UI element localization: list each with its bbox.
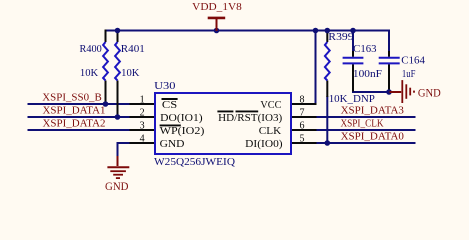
svg-text:W25Q256JWEIQ: W25Q256JWEIQ [154, 156, 235, 168]
svg-text:DI(IO0): DI(IO0) [245, 138, 283, 150]
svg-text:XSPI_SS0_B: XSPI_SS0_B [42, 93, 102, 104]
svg-text:10K: 10K [121, 68, 140, 79]
svg-text:XSPI_DATA0: XSPI_DATA0 [341, 132, 404, 143]
svg-text:R400: R400 [80, 44, 102, 55]
svg-text:DO(IO1): DO(IO1) [160, 112, 203, 124]
svg-text:GND: GND [105, 179, 129, 193]
svg-text:2: 2 [140, 107, 145, 118]
svg-text:R401: R401 [121, 44, 145, 55]
svg-text:1uF: 1uF [402, 69, 416, 80]
svg-text:GND: GND [418, 85, 441, 99]
svg-text:10K_DNP: 10K_DNP [329, 93, 375, 105]
svg-text:6: 6 [300, 120, 305, 131]
svg-text:XSPI_DATA1: XSPI_DATA1 [43, 106, 106, 117]
svg-text:XSPI_DATA2: XSPI_DATA2 [43, 119, 106, 130]
svg-text:1: 1 [140, 94, 145, 105]
svg-text:XSPI_CLK: XSPI_CLK [341, 119, 385, 130]
svg-text:HD/RST(IO3): HD/RST(IO3) [218, 112, 282, 124]
svg-text:U30: U30 [154, 80, 175, 92]
svg-text:R399: R399 [328, 32, 353, 43]
svg-text:3: 3 [140, 120, 145, 131]
svg-text:WP(IO2): WP(IO2) [160, 125, 205, 137]
svg-text:VDD_1V8: VDD_1V8 [192, 1, 242, 13]
svg-text:8: 8 [300, 94, 305, 105]
svg-text:10K: 10K [80, 68, 99, 79]
svg-text:CLK: CLK [259, 125, 281, 137]
svg-text:C163: C163 [353, 44, 376, 55]
svg-text:XSPI_DATA3: XSPI_DATA3 [341, 106, 404, 117]
svg-text:CS: CS [162, 99, 177, 111]
svg-text:C164: C164 [401, 56, 425, 67]
svg-text:100nF: 100nF [353, 69, 382, 80]
svg-text:VCC: VCC [260, 99, 281, 111]
svg-text:7: 7 [300, 107, 305, 118]
svg-text:GND: GND [160, 138, 185, 150]
svg-text:4: 4 [140, 133, 145, 144]
svg-text:5: 5 [300, 133, 305, 144]
